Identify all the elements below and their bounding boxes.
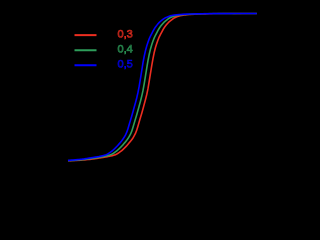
svg-text:0,3: 0,3 <box>118 29 133 41</box>
svg-text:0,4: 0,4 <box>118 44 133 56</box>
svg-text:0,5: 0,5 <box>118 59 133 71</box>
